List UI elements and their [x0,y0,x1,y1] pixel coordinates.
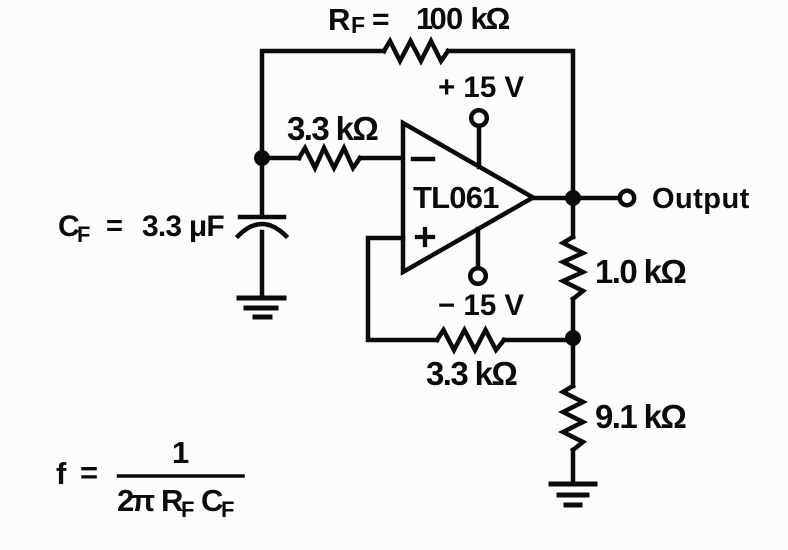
resistor R2 1.0k [563,237,583,299]
wire R3 to bottom junction [504,338,573,343]
node output junction dot [565,190,581,206]
svg-text:=: = [80,455,98,490]
label 3.3 kOhm input [287,110,378,147]
wire capacitor to ground [260,232,265,298]
wire V+ terminal to op-amp [477,127,482,167]
label 9.1 kOhm [595,398,686,435]
resistor R4 9.1k [563,386,583,450]
wire junction to capacitor [260,158,265,215]
label 3.3 kOhm bottom [426,355,517,392]
wire junction to R1 [262,156,299,161]
label RF = 100 kOhm [328,1,510,38]
wire op-amp to V- terminal [476,229,481,267]
resistor R3 3.3k bottom [437,330,504,350]
op-amp U1 TL061 [403,123,533,272]
node A junction dot (inverting input node) [254,150,270,166]
wire R4 to ground [571,450,576,484]
resistor RF [384,41,448,61]
svg-text:TL061: TL061 [413,180,499,215]
wire R2 to bottom junction [571,299,576,338]
svg-text:1.0 kΩ: 1.0 kΩ [595,253,686,290]
svg-text:=: = [372,3,390,36]
svg-text:F: F [181,497,194,522]
wire top-left feedback corner [262,51,384,158]
label +15 V [438,71,524,104]
output terminal circle [620,191,634,205]
svg-text:3.3 kΩ: 3.3 kΩ [287,110,378,147]
capacitor CF [238,217,286,236]
op-amp minus pin mark [413,157,433,162]
svg-text:F: F [77,222,90,247]
svg-text:F: F [221,497,234,522]
V+ supply terminal circle [471,110,487,126]
svg-text:kΩ: kΩ [471,1,511,36]
ground (below R4) [551,484,595,505]
svg-text:2π: 2π [117,483,155,518]
svg-text:3.3 kΩ: 3.3 kΩ [426,355,517,392]
label 1.0 kOhm [595,253,686,290]
svg-text:Output: Output [652,183,750,215]
svg-text:1: 1 [172,435,189,470]
svg-text:R: R [328,2,350,37]
wire junction to R4 [571,338,576,386]
wire R1 to op-amp inverting input [360,156,403,161]
svg-text:f: f [56,456,67,491]
svg-text:− 15 V: − 15 V [438,289,524,322]
formula f = 1 / (2 pi RF CF) [56,435,234,522]
V- supply terminal circle [470,268,486,284]
formula fraction bar [119,474,244,478]
wire op-amp noninverting input loop [368,238,437,340]
label -15 V [438,289,524,322]
label TL061 [413,180,499,215]
node bottom junction dot [565,330,581,346]
op-amp plus pin mark [417,229,433,245]
svg-text:=: = [106,210,123,242]
svg-text:F: F [351,12,365,38]
svg-text:100: 100 [416,1,463,36]
wire top-right feedback corner [448,51,573,237]
resistor R1 3.3k input [299,148,360,168]
svg-text:+ 15 V: + 15 V [438,71,524,104]
svg-text:9.1 kΩ: 9.1 kΩ [595,398,686,435]
ground (below CF) [239,298,284,317]
label Output [652,183,750,215]
label CF = 3.3 uF [58,210,224,247]
wire op-amp output [533,196,618,201]
svg-text:3.3 μF: 3.3 μF [142,210,224,243]
